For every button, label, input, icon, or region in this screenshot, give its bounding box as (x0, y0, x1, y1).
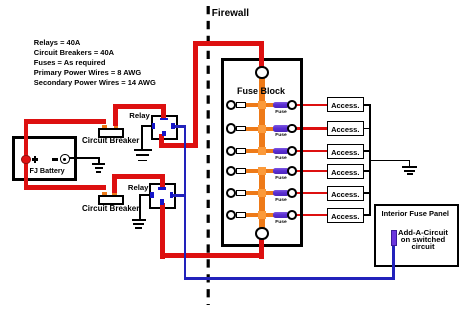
relay R1 pin 30 (top) (160, 118, 168, 121)
wire: red drop into fuse block upper feed (259, 41, 264, 67)
wire: red bottom run relay R2 output to fuse block (160, 253, 265, 258)
wire: accessory common ground vertical bus (369, 104, 371, 216)
wire: red stub from relay R1 pin 87 (159, 134, 164, 148)
text: Add-A-Circuit note (385, 230, 461, 250)
wire: red primary run to relay R1 input (113, 104, 166, 109)
wire: red firewall riser (193, 41, 198, 148)
wire: blue bottom run to Add-A-Circuit (184, 277, 396, 280)
Add-A-Circuit fuse tap body (391, 230, 397, 246)
wire: red primary CB2 riser (112, 174, 117, 194)
fuse block row 2: spade terminal, crimp, fuse F2, ring lug (236, 126, 246, 132)
fuse block housing (221, 58, 304, 247)
wire: red stub into relay R2 pin 30 (160, 174, 165, 188)
wire: red riser into fuse block lower feed (259, 238, 264, 259)
orange bus: fuse block upper distribution bus (259, 76, 266, 153)
circuit breaker CB2 terminals (orange) (102, 192, 107, 195)
relay R2 body (149, 183, 177, 209)
wire: blue switched feed from relay R1 pin 86 (174, 125, 186, 128)
wire: thin red fuse outputs to accessory boxes (rows 1-6) (294, 104, 328, 107)
fuse block row 4: spade terminal, crimp, fuse F4, ring lug (236, 168, 246, 174)
text: battery minus sign (52, 158, 58, 160)
relay R1 body (151, 115, 178, 140)
wire: red stub into relay R1 pin 30 (161, 104, 166, 118)
wire: red run relay R1 output to firewall riser (159, 143, 198, 148)
ground: relay R2 ground symbol (132, 219, 147, 221)
text: Relay R1 (129, 111, 150, 120)
ground: battery ground symbol (92, 163, 105, 165)
text: Firewall (212, 8, 249, 19)
relay R1 pin 85 (left) (152, 123, 156, 129)
fuse block upper feed terminal (ring) (255, 66, 269, 80)
accessory load boxes Access 1-6 (327, 97, 364, 112)
fuse block row 5: spade terminal, crimp, fuse F5, ring lug (236, 190, 246, 196)
wire: red primary battery top run to CB1 (24, 119, 107, 124)
wire: red primary battery bottom run to CB2 (24, 185, 107, 190)
relay R2 pin 30 (top) (158, 187, 166, 190)
text: Circuit Breaker CB2 (82, 204, 139, 213)
fuse block row 6: spade terminal, crimp, fuse F6, ring lug (236, 212, 246, 218)
text: Interior Fuse Panel (382, 209, 450, 218)
relay R1 pin 86 (right) (171, 123, 175, 129)
wire: relay R2 coil pin 85 to ground (139, 194, 150, 196)
text: legend (34, 38, 156, 88)
battery negative terminal (60, 154, 70, 164)
text: Relay R2 (128, 183, 149, 192)
wire: red stub from relay R2 pin 87 (160, 203, 165, 259)
wire: orange fuse row feeds (rows 1-6) (244, 103, 274, 107)
battery positive terminal (21, 155, 31, 165)
wire: blue riser to Add-A-Circuit fuse tap (392, 245, 395, 280)
orange bus: fuse block lower distribution bus (259, 169, 266, 228)
wire: red primary CB1 riser (113, 104, 118, 126)
text: Circuit Breaker CB1 (82, 136, 139, 145)
wire: red primary run to relay R2 input (112, 174, 165, 179)
fuse block lower feed terminal (ring) (255, 227, 269, 241)
node: bus junctions (rows 1-6) (258, 101, 266, 109)
wire: red primary battery riser (24, 119, 29, 190)
relay R2 pin 85 (left) (150, 192, 154, 198)
text: Fuse Block (237, 86, 285, 96)
fuse block row 1: spade terminal, crimp, fuse F1, ring lug (236, 102, 246, 108)
battery B1: FJ Battery box (12, 136, 77, 181)
interior fuse panel box (374, 204, 459, 267)
ground: relay R1 ground symbol (134, 149, 153, 151)
text: Access labels 1-6 (327, 101, 364, 110)
wire: accessory return stubs to common ground bus (rows 1-6) (362, 104, 371, 106)
relay R2 pin 87 (bottom) (160, 199, 164, 205)
wire: battery negative to ground (69, 157, 100, 159)
wire: blue switched vertical run (184, 125, 187, 280)
circuit breaker CB2 body (98, 195, 124, 205)
relay R1 pin 87 (bottom) (162, 131, 166, 137)
relay R2 pin 86 (right) (170, 192, 174, 198)
ground: accessory chassis ground symbol (402, 166, 417, 168)
wire: blue switched feed from relay R2 pin 86 (172, 194, 186, 197)
text: battery plus sign (32, 158, 39, 160)
wire: red top run over firewall to fuse block (193, 41, 265, 46)
text: FJ Battery (30, 166, 65, 175)
circuit breaker CB1 body (98, 128, 124, 138)
circuit breaker CB1 terminals (orange) (102, 125, 107, 128)
fuse block row 3: spade terminal, crimp, fuse F3, ring lug (236, 148, 246, 154)
wire: ground bus branch to chassis ground (370, 160, 410, 162)
wire: relay R1 coil pin 85 to ground (141, 125, 151, 127)
